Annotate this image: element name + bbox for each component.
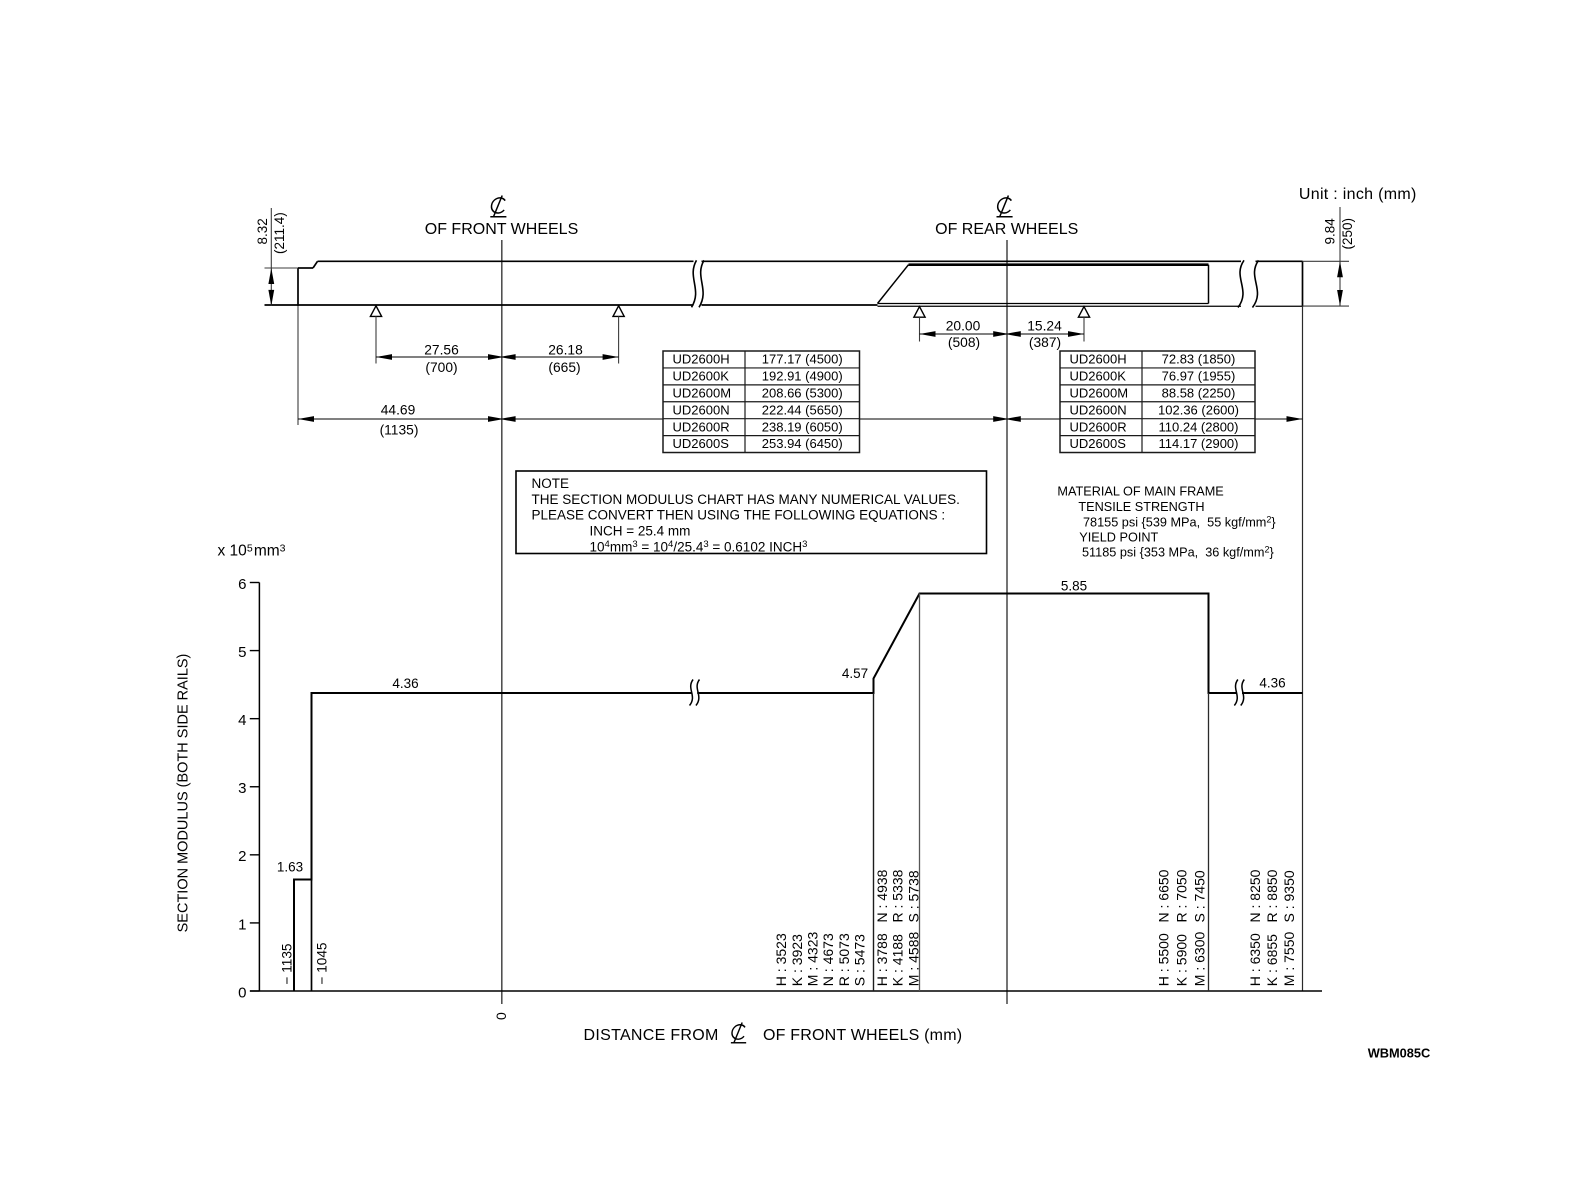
svg-text:253.94 (6450): 253.94 (6450)	[762, 436, 843, 451]
frame rail top edge	[298, 267, 313, 269]
reinforcement plate (rear frame section)	[878, 265, 909, 304]
svg-text:H : 3788: H : 3788	[874, 933, 890, 986]
dimension rear overhang (table values)	[1007, 418, 1303, 420]
axle support (front)	[370, 306, 381, 317]
svg-text:OF REAR WHEELS: OF REAR WHEELS	[935, 221, 1078, 238]
svg-text:104​mm3​ = 104​/25.43​ = 0.610: 104​mm3​ = 104​/25.43​ = 0.6102 INCH3​	[590, 539, 808, 555]
svg-text:0: 0	[493, 1012, 509, 1020]
svg-text:26.18: 26.18	[548, 343, 583, 358]
svg-text:(250): (250)	[1340, 218, 1355, 250]
svg-text:(508): (508)	[948, 335, 980, 350]
svg-text:K : 3923: K : 3923	[789, 934, 805, 986]
svg-text:S : 7450: S : 7450	[1191, 870, 1207, 922]
svg-text:R : 5338: R : 5338	[890, 869, 906, 922]
svg-text:72.83 (1850): 72.83 (1850)	[1162, 352, 1236, 367]
svg-text:N : 8250: N : 8250	[1247, 869, 1263, 922]
svg-text:N : 6650: N : 6650	[1156, 869, 1172, 922]
svg-text:222.44 (5650): 222.44 (5650)	[762, 402, 843, 417]
dimension 27.56 (700)	[376, 356, 502, 358]
svg-text:R : 8850: R : 8850	[1264, 869, 1280, 922]
svg-text:51185 psi {353 MPa, 36 kgf/mm: 51185 psi {353 MPa, 36 kgf/mm2​}	[1082, 544, 1274, 559]
svg-text:1: 1	[238, 916, 246, 933]
svg-text:4.36: 4.36	[1259, 676, 1285, 691]
chart break symbol (left)	[692, 685, 697, 701]
extension at taper start down to axis	[873, 693, 875, 991]
x axis	[250, 990, 1322, 992]
svg-text:WBM085C: WBM085C	[1368, 1046, 1431, 1061]
chart break symbol (right)	[1237, 685, 1242, 701]
svg-text:27.56: 27.56	[424, 343, 459, 358]
extension line left end	[297, 306, 299, 425]
svg-text:UD2600M: UD2600M	[1070, 385, 1129, 400]
svg-text:PLEASE CONVERT THEN USING THE: PLEASE CONVERT THEN USING THE FOLLOWING …	[532, 508, 946, 523]
svg-text:78155 psi {539 MPa, 55 kgf/mm: 78155 psi {539 MPa, 55 kgf/mm2​}	[1083, 514, 1276, 529]
svg-text:K : 5900: K : 5900	[1174, 934, 1190, 986]
svg-text:0: 0	[238, 984, 246, 1001]
svg-text:SECTION MODULUS (BOTH SIDE RAI: SECTION MODULUS (BOTH SIDE RAILS)	[176, 654, 192, 933]
rear overhang table (right)	[1060, 351, 1255, 453]
dimension 9.84 (250) frame height rear	[1303, 260, 1350, 262]
svg-text:110.24 (2800): 110.24 (2800)	[1159, 419, 1239, 434]
svg-text:2: 2	[238, 848, 246, 865]
centerline symbol (rear)	[997, 196, 1013, 217]
svg-text:H : 3523: H : 3523	[773, 933, 789, 986]
svg-text:S : 5473: S : 5473	[852, 934, 868, 986]
svg-text:YIELD POINT: YIELD POINT	[1079, 531, 1158, 545]
svg-text:DISTANCE FROM: DISTANCE FROM	[584, 1027, 719, 1044]
svg-text:(387): (387)	[1029, 335, 1061, 350]
axle support (rear)	[1078, 307, 1089, 318]
svg-text:(665): (665)	[548, 360, 580, 375]
dimension 15.24 (387)	[1007, 333, 1084, 335]
svg-text:UD2600K: UD2600K	[1070, 369, 1127, 384]
svg-text:OF FRONT WHEELS (mm): OF FRONT WHEELS (mm)	[763, 1027, 962, 1044]
svg-text:3: 3	[238, 780, 246, 797]
axle support (front)	[613, 306, 624, 317]
svg-text:4: 4	[238, 712, 246, 729]
svg-text:UD2600K: UD2600K	[673, 369, 730, 384]
rear wheels centerline	[1006, 240, 1008, 1004]
rail break symbol (left)	[694, 259, 702, 310]
y axis ticks and labels	[250, 990, 260, 992]
svg-text:5: 5	[238, 644, 246, 661]
svg-text:192.91 (4900): 192.91 (4900)	[762, 369, 843, 384]
extension line right end (down to chart)	[1302, 306, 1304, 991]
svg-text:− 1135: − 1135	[279, 944, 294, 985]
svg-text:6: 6	[238, 576, 246, 593]
frame rail right end	[1302, 261, 1304, 306]
front wheels centerline	[501, 240, 503, 1004]
svg-text:MATERIAL OF MAIN FRAME: MATERIAL OF MAIN FRAME	[1057, 485, 1223, 499]
extension -1045 down to axis	[311, 880, 313, 992]
section modulus curve	[294, 594, 1303, 992]
svg-text:NOTE: NOTE	[532, 476, 570, 491]
dimension 20.00 (508)	[920, 333, 1008, 335]
dimension 26.18 (665)	[502, 356, 619, 358]
svg-text:20.00: 20.00	[946, 319, 981, 334]
svg-text:8.32: 8.32	[255, 218, 270, 244]
svg-text:S : 9350: S : 9350	[1281, 870, 1297, 922]
svg-text:UD2600H: UD2600H	[673, 352, 730, 367]
rail break symbol (right)	[1241, 259, 1256, 310]
svg-text:238.19 (6050): 238.19 (6050)	[762, 419, 843, 434]
svg-text:(700): (700)	[425, 360, 457, 375]
svg-text:H : 6350: H : 6350	[1247, 933, 1263, 986]
svg-text:N : 4938: N : 4938	[874, 869, 890, 922]
frame rail bottom edge (rear)	[878, 305, 1303, 307]
svg-text:UD2600R: UD2600R	[1070, 419, 1127, 434]
svg-text:9.84: 9.84	[1323, 218, 1338, 245]
svg-text:15.24: 15.24	[1027, 319, 1062, 334]
svg-text:M : 6300: M : 6300	[1191, 932, 1207, 987]
axle support (rear)	[914, 307, 925, 318]
svg-text:K : 6855: K : 6855	[1264, 934, 1280, 986]
svg-text:− 1045: − 1045	[315, 943, 330, 985]
svg-text:4.36: 4.36	[392, 676, 418, 691]
svg-text:INCH = 25.4 mm: INCH = 25.4 mm	[590, 524, 691, 539]
svg-text:177.17 (4500): 177.17 (4500)	[762, 352, 843, 367]
svg-text:208.66 (5300): 208.66 (5300)	[762, 385, 843, 400]
svg-text:UD2600R: UD2600R	[673, 419, 730, 434]
svg-text:UD2600S: UD2600S	[673, 436, 730, 451]
svg-text:UD2600M: UD2600M	[673, 385, 732, 400]
svg-text:S : 5738: S : 5738	[905, 870, 921, 922]
svg-text:(1135): (1135)	[380, 423, 419, 438]
frame rail bottom edge (front)	[265, 304, 878, 306]
dimension wheelbase (table values)	[502, 418, 1007, 420]
svg-text:UD2600N: UD2600N	[673, 402, 730, 417]
svg-text:M : 4323: M : 4323	[805, 932, 821, 987]
svg-text:Unit : inch (mm): Unit : inch (mm)	[1299, 186, 1417, 203]
note box	[516, 471, 987, 554]
svg-text:88.58 (2250): 88.58 (2250)	[1162, 385, 1236, 400]
svg-text:4.57: 4.57	[842, 666, 868, 681]
svg-text:R : 5073: R : 5073	[836, 933, 852, 986]
svg-text:K : 4188: K : 4188	[890, 934, 906, 986]
dimension 8.32 (211.4) frame height front	[265, 267, 299, 269]
svg-text:76.97 (1955): 76.97 (1955)	[1162, 369, 1236, 384]
svg-text:M : 4588: M : 4588	[905, 932, 921, 987]
svg-text:UD2600N: UD2600N	[1070, 402, 1127, 417]
centerline symbol (front)	[490, 196, 506, 217]
y axis	[258, 583, 260, 992]
dimension 44.69 (1135)	[298, 418, 502, 420]
svg-text:H : 5500: H : 5500	[1156, 933, 1172, 986]
svg-text:44.69: 44.69	[381, 403, 416, 418]
wheelbase table (left)	[663, 351, 860, 453]
svg-text:1.63: 1.63	[277, 860, 303, 875]
svg-text:N : 4673: N : 4673	[820, 933, 836, 986]
svg-text:THE SECTION MODULUS CHART HAS: THE SECTION MODULUS CHART HAS MANY NUMER…	[532, 492, 960, 507]
svg-text:5.85: 5.85	[1061, 579, 1087, 594]
svg-text:(211.4): (211.4)	[272, 212, 287, 254]
extension at taper end down to axis	[919, 594, 921, 992]
svg-text:M : 7550: M : 7550	[1281, 932, 1297, 987]
svg-text:102.36 (2600): 102.36 (2600)	[1158, 402, 1239, 417]
svg-text:UD2600S: UD2600S	[1070, 436, 1127, 451]
svg-text:OF FRONT WHEELS: OF FRONT WHEELS	[425, 221, 579, 238]
svg-text:114.17 (2900): 114.17 (2900)	[1159, 436, 1239, 451]
svg-text:UD2600H: UD2600H	[1070, 352, 1127, 367]
frame rail left end	[297, 268, 299, 306]
svg-text:TENSILE STRENGTH: TENSILE STRENGTH	[1078, 500, 1204, 514]
extension at reinforcement end down to axis	[1208, 693, 1210, 991]
svg-text:R : 7050: R : 7050	[1174, 869, 1190, 922]
